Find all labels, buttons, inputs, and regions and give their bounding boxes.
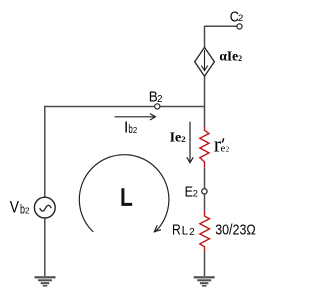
ground left [35,276,56,286]
voltage source Vb2 [34,197,55,218]
svg-text:R: R [172,223,181,239]
label L [123,188,132,204]
svg-text:30/23Ω: 30/23Ω [215,222,256,239]
wire from source down through B2 junction [204,76,206,127]
wire E2 to RL2 [204,193,206,211]
ground right [194,276,215,286]
wire top vertical to dependent source [204,26,206,48]
resistor RL2 [200,211,210,251]
svg-text:2: 2 [193,189,198,199]
current arrow Ie2 [187,122,193,163]
wire r'e2 to E2 [204,167,206,188]
sine symbol [40,205,52,211]
svg-text:Ie2: Ie2 [170,131,186,146]
svg-text:2: 2 [238,13,243,24]
svg-text:2: 2 [25,207,30,216]
svg-text:E: E [185,184,193,200]
wire C2 horizontal [205,25,238,27]
node B2 [155,104,160,109]
wire RL2 to ground [204,251,206,276]
svg-text:αIe2: αIe2 [219,48,242,63]
svg-text:V: V [10,199,19,217]
svg-text:2: 2 [226,146,230,154]
resistor r'e2 [200,127,209,168]
node C2 terminal [237,24,242,29]
dependent current source aIe2 [195,47,215,76]
loop arc L [79,155,169,232]
svg-text:2: 2 [157,94,162,105]
current arrow Ib2 [115,114,156,120]
node E2 [202,189,207,194]
wire B2 horizontal [44,106,204,108]
wire left vertical top [44,106,46,198]
svg-text:2: 2 [189,227,194,238]
label r'e2 [214,132,230,157]
svg-text:2: 2 [133,126,137,135]
wire source to ground [44,218,46,276]
svg-text:L: L [182,225,189,238]
